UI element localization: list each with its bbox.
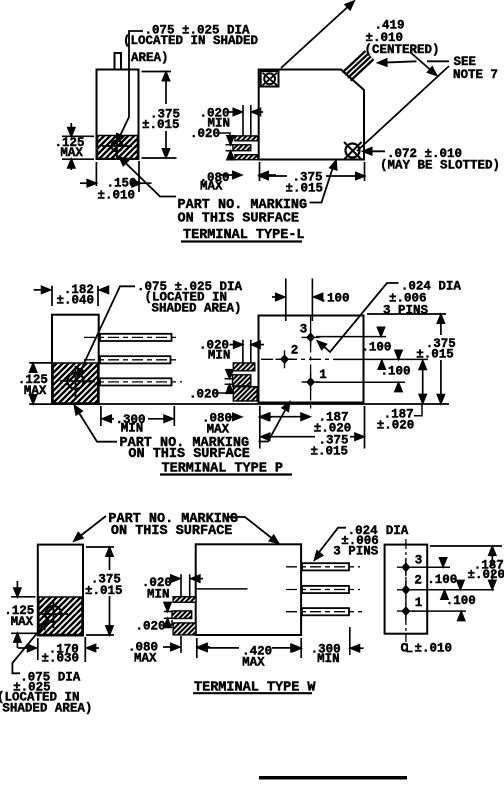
svg-text:ON THIS SURFACE: ON THIS SURFACE xyxy=(178,211,300,226)
fig3 lead 2 (middle) xyxy=(286,586,360,593)
fig3 dim .020 strip ticks and arrows xyxy=(164,612,173,619)
svg-text:MIN: MIN xyxy=(147,587,170,601)
svg-text:.100: .100 xyxy=(361,340,391,354)
title TERMINAL TYPE-L xyxy=(183,228,305,243)
note .075 dia (fig3) xyxy=(0,671,92,716)
fig3 dim .300 MIN xyxy=(290,647,298,649)
fig3 lead 3 (bottom) xyxy=(286,608,362,615)
svg-text:SHADED AREA): SHADED AREA) xyxy=(2,702,92,716)
svg-text:(CENTERED): (CENTERED) xyxy=(365,43,440,57)
fig3 end view rectangle xyxy=(385,545,428,634)
fig3 lead 1 (top) xyxy=(286,563,360,570)
fig3 side-view rectangle xyxy=(38,545,83,636)
fig2 pin 2 xyxy=(276,350,294,368)
svg-text:SHADED AREA): SHADED AREA) xyxy=(152,302,242,316)
svg-text:SEE: SEE xyxy=(454,55,477,69)
fig2 pin 1 xyxy=(302,373,320,391)
fig2 pin 3 xyxy=(302,328,320,346)
svg-text:.100: .100 xyxy=(381,365,411,379)
fig1 dim .375 side: dimension line and arrows xyxy=(165,73,167,158)
fig3 dim .375: extension lines xyxy=(86,547,114,635)
svg-text:1: 1 xyxy=(415,596,423,610)
note .419 centered xyxy=(365,19,440,58)
fig2 dim .125 MAX: extension lines xyxy=(29,363,51,404)
svg-text:±.040: ±.040 xyxy=(57,294,95,308)
svg-text:3: 3 xyxy=(415,553,423,567)
svg-text:.100: .100 xyxy=(320,291,350,305)
see note 7 text xyxy=(453,55,498,82)
svg-text:MIN: MIN xyxy=(121,422,144,436)
svg-text:±.015: ±.015 xyxy=(85,584,123,598)
fig2 top view square xyxy=(259,316,364,403)
fig3 pin extension lines xyxy=(412,567,494,611)
note .024 dia (fig2) xyxy=(383,279,461,317)
fig2 dim .100 top arrows xyxy=(272,296,281,298)
fig2 dim .375 bottom xyxy=(262,436,362,438)
fig3 dim .170: extension lines xyxy=(38,637,86,662)
fig1 dim .375 bottom: dimension line xyxy=(261,175,364,177)
fig3 dim .100 lower arrows xyxy=(441,591,448,600)
fig3 end pin 1 xyxy=(397,602,415,620)
note .075 dia (fig2) xyxy=(137,280,243,316)
fig2 lead 1 (top) xyxy=(84,334,180,341)
fig2 dim .125 MAX arrows xyxy=(32,366,34,402)
svg-text:MAX: MAX xyxy=(11,615,34,629)
part no marking text (fig1) xyxy=(178,198,308,226)
svg-text:MIN: MIN xyxy=(317,652,340,666)
fig3 end pin 2 xyxy=(397,581,415,599)
fig1 terminal strip extension lines xyxy=(243,105,251,136)
fig2 terminal dia target symbol xyxy=(60,366,92,400)
part no marking leader left (fig1) xyxy=(122,160,176,197)
svg-text:±.015: ±.015 xyxy=(416,347,454,361)
svg-text:2: 2 xyxy=(414,573,422,587)
fig2 pin3 extension line right xyxy=(316,336,386,338)
svg-text:MAX: MAX xyxy=(242,655,265,669)
svg-text:(MAY BE SLOTTED): (MAY BE SLOTTED) xyxy=(380,158,500,172)
svg-text:MAX: MAX xyxy=(200,180,223,194)
fig2 dim .100 top: extension lines xyxy=(286,279,313,322)
svg-text:.020: .020 xyxy=(189,388,219,402)
svg-text:±.010: ±.010 xyxy=(415,642,453,656)
leader from .075 note into shaded area (fig2) xyxy=(80,286,136,373)
fig2 lead 2 (middle) xyxy=(84,356,179,363)
fig2 horizontal dashed centerline through pin 2 xyxy=(261,358,334,360)
fig2 pin labels xyxy=(291,323,327,382)
fig3 end pin 3 xyxy=(397,558,415,576)
fig1 dim .020 strip thickness ticks and arrows xyxy=(226,145,235,151)
title TERMINAL TYPE P xyxy=(162,462,284,477)
fig1 terminal strip hatched zigzag xyxy=(235,136,258,141)
fig1 dim .080 MAX arrows xyxy=(221,174,238,176)
fig2 terminal strip hatched zigzag xyxy=(233,363,255,371)
svg-text:±.015: ±.015 xyxy=(286,182,324,196)
arrow from .419 note to pin axis xyxy=(410,52,434,73)
fig3 shaded (hatched) area xyxy=(39,597,82,635)
fig2 dim .100 lower right arrows xyxy=(378,361,385,370)
svg-text:1: 1 xyxy=(319,368,327,382)
fig3 internal seam line xyxy=(197,588,248,590)
fig1 dim .150 arrows xyxy=(80,182,93,184)
fig1 .419 dimension diagonal through top-left symbol xyxy=(281,3,353,69)
svg-text:2: 2 xyxy=(291,343,299,357)
fig1 dim .125 MAX: extension lines xyxy=(62,136,94,159)
leader from .075 DIA note to shaded area xyxy=(119,31,144,139)
fig1 side-view body rectangle xyxy=(97,70,139,160)
svg-text:AREA): AREA) xyxy=(131,51,169,65)
svg-text:.100: .100 xyxy=(427,573,457,587)
fig2 .020 label and leader xyxy=(189,388,219,402)
fig3 end view centerline xyxy=(405,539,407,642)
fig2 dim .300 MIN arrows xyxy=(103,415,112,422)
fig2 dim .100 upper right arrows xyxy=(380,327,382,333)
fig2 dim .375 right xyxy=(440,315,442,403)
svg-text:MAX: MAX xyxy=(24,384,47,398)
svg-text:.020: .020 xyxy=(190,127,220,141)
note .075 dia xyxy=(123,24,259,66)
svg-text:±.010: ±.010 xyxy=(98,188,136,202)
part no marking right leader (fig2) xyxy=(259,405,289,442)
fig2 side-view body rectangle xyxy=(52,315,99,404)
note 7 long diagonal to bottom-right symbol xyxy=(357,66,449,151)
part no marking left leader (fig3) xyxy=(77,516,106,539)
fig3 dim .125 MAX: extension lines xyxy=(11,597,37,634)
fig3 strip extension lines xyxy=(181,574,190,597)
fig2 lead 3 (bottom) xyxy=(84,378,182,385)
part no marking text (fig3) xyxy=(108,512,238,539)
fig2 dim .182: extension lines xyxy=(52,286,98,306)
svg-text:±.020: ±.020 xyxy=(377,418,415,432)
leader .024 DIA to lead (fig3) xyxy=(317,528,347,556)
svg-text:.100: .100 xyxy=(446,594,476,608)
part no marking text (fig2) xyxy=(120,436,250,462)
fig3 end pin labels xyxy=(414,553,422,610)
svg-text:±.030: ±.030 xyxy=(42,652,80,666)
part no marking leader right to top view bottom (fig1) xyxy=(310,164,335,203)
fig1 dim .375 side: extension lines xyxy=(142,72,177,159)
fig2 dim .187 bottom xyxy=(262,416,306,418)
fig1 pins ribbon at chamfer xyxy=(343,51,374,81)
fig3 dim .420 MAX arrows xyxy=(198,644,207,651)
fig3 dim .375 arrows xyxy=(109,548,111,634)
svg-text:±.015: ±.015 xyxy=(311,444,349,458)
fig2 dim .187 right xyxy=(422,362,424,402)
centerline symbol and tolerance xyxy=(401,642,453,656)
fig3 terminal strip hatched zigzag xyxy=(173,597,196,603)
fig1 top tab (slot) xyxy=(115,53,122,70)
svg-text:±.015: ±.015 xyxy=(142,118,180,132)
svg-text:ON THIS SURFACE: ON THIS SURFACE xyxy=(128,447,250,462)
fig3 dim .125 MAX arrows xyxy=(16,581,18,594)
fig2 strip extension lines xyxy=(243,340,251,364)
see note 7 leader to pins xyxy=(382,61,450,62)
svg-text:.020: .020 xyxy=(136,619,166,633)
fig2 long bottom line xyxy=(52,403,449,405)
fig2 dim .080 MAX arrows xyxy=(229,416,237,418)
svg-text:NOTE 7: NOTE 7 xyxy=(453,68,498,82)
fig1 dim .020 MIN arrows xyxy=(229,111,239,113)
fig1 dim .125 MAX arrows xyxy=(70,123,72,170)
fig3 body rectangle xyxy=(196,544,301,635)
svg-text:3: 3 xyxy=(300,323,308,337)
fig2 dim .300 MIN extension lines xyxy=(101,406,174,426)
fig1 top view outline with chamfer xyxy=(259,70,364,160)
fig2 dim .020 MIN arrows xyxy=(230,344,240,346)
leader .024 DIA to pin 3 (fig2) xyxy=(321,283,399,352)
note .024 dia (fig3) xyxy=(333,524,408,559)
svg-text:MAX: MAX xyxy=(134,652,157,666)
fig1 bottom-right slot symbol (adjuster, may be slotted) xyxy=(344,142,362,160)
fig2 pin1 extension line right xyxy=(316,381,405,383)
fig3 .080 left extension xyxy=(180,636,182,653)
svg-text:DIA: DIA xyxy=(386,524,409,538)
fig3 dim .080 MAX arrows xyxy=(163,646,176,648)
fig1 .020 label and leader xyxy=(190,127,220,141)
part no marking right leader to body top (fig3) xyxy=(229,517,276,542)
fig2 shaded (hatched) area xyxy=(53,363,98,403)
svg-text:±.020: ±.020 xyxy=(468,568,504,582)
leader .072 to slot symbol xyxy=(366,150,385,152)
svg-text:ON THIS SURFACE: ON THIS SURFACE xyxy=(111,524,233,539)
svg-text:(LOCATED IN SHADED: (LOCATED IN SHADED xyxy=(123,34,259,48)
fig2 bottom-left extension verticals xyxy=(260,406,365,449)
title TERMINAL TYPE W xyxy=(194,680,316,695)
fig3 dim .020 MIN arrows xyxy=(167,578,176,580)
fig3 dim .100 upper arrows xyxy=(442,558,444,564)
fig3 .020 label and leader xyxy=(136,619,166,633)
svg-text:MIN: MIN xyxy=(208,348,231,362)
fig1 dim .150: extension lines xyxy=(96,161,139,192)
fig2 dim .182 arrows xyxy=(34,289,47,291)
fig2 pin2 extension line right xyxy=(334,358,428,360)
part no marking left leader (fig2) xyxy=(76,408,117,442)
leader from .075 note to shaded area (fig3) xyxy=(12,623,45,673)
fig3 dim .170 arrows xyxy=(18,647,33,649)
fig3 terminal dia target symbol xyxy=(39,600,68,628)
fig3 dim .187 right xyxy=(491,548,493,588)
svg-text:3 PINS: 3 PINS xyxy=(333,544,379,558)
fig3 dim .420 MAX: extension lines xyxy=(197,638,301,658)
svg-text:MAX: MAX xyxy=(60,146,83,160)
fig1 dim .375 bottom: extension lines xyxy=(260,162,365,181)
svg-text:MAX: MAX xyxy=(207,423,230,437)
fig1 top-left slot symbol xyxy=(261,71,279,86)
fig3 end view top extension line xyxy=(430,545,502,547)
fig2 vertical dashed centerline through pins 1,3 xyxy=(310,317,312,412)
fig1 terminal dia target symbol xyxy=(102,133,132,160)
bottom separator line xyxy=(259,776,407,780)
svg-text:3 PINS: 3 PINS xyxy=(383,303,429,317)
fig2 dim .020 strip ticks and arrows xyxy=(225,379,233,385)
fig2 square top extension line xyxy=(367,313,446,315)
fig1 shaded (hatched) marking band xyxy=(98,136,138,159)
